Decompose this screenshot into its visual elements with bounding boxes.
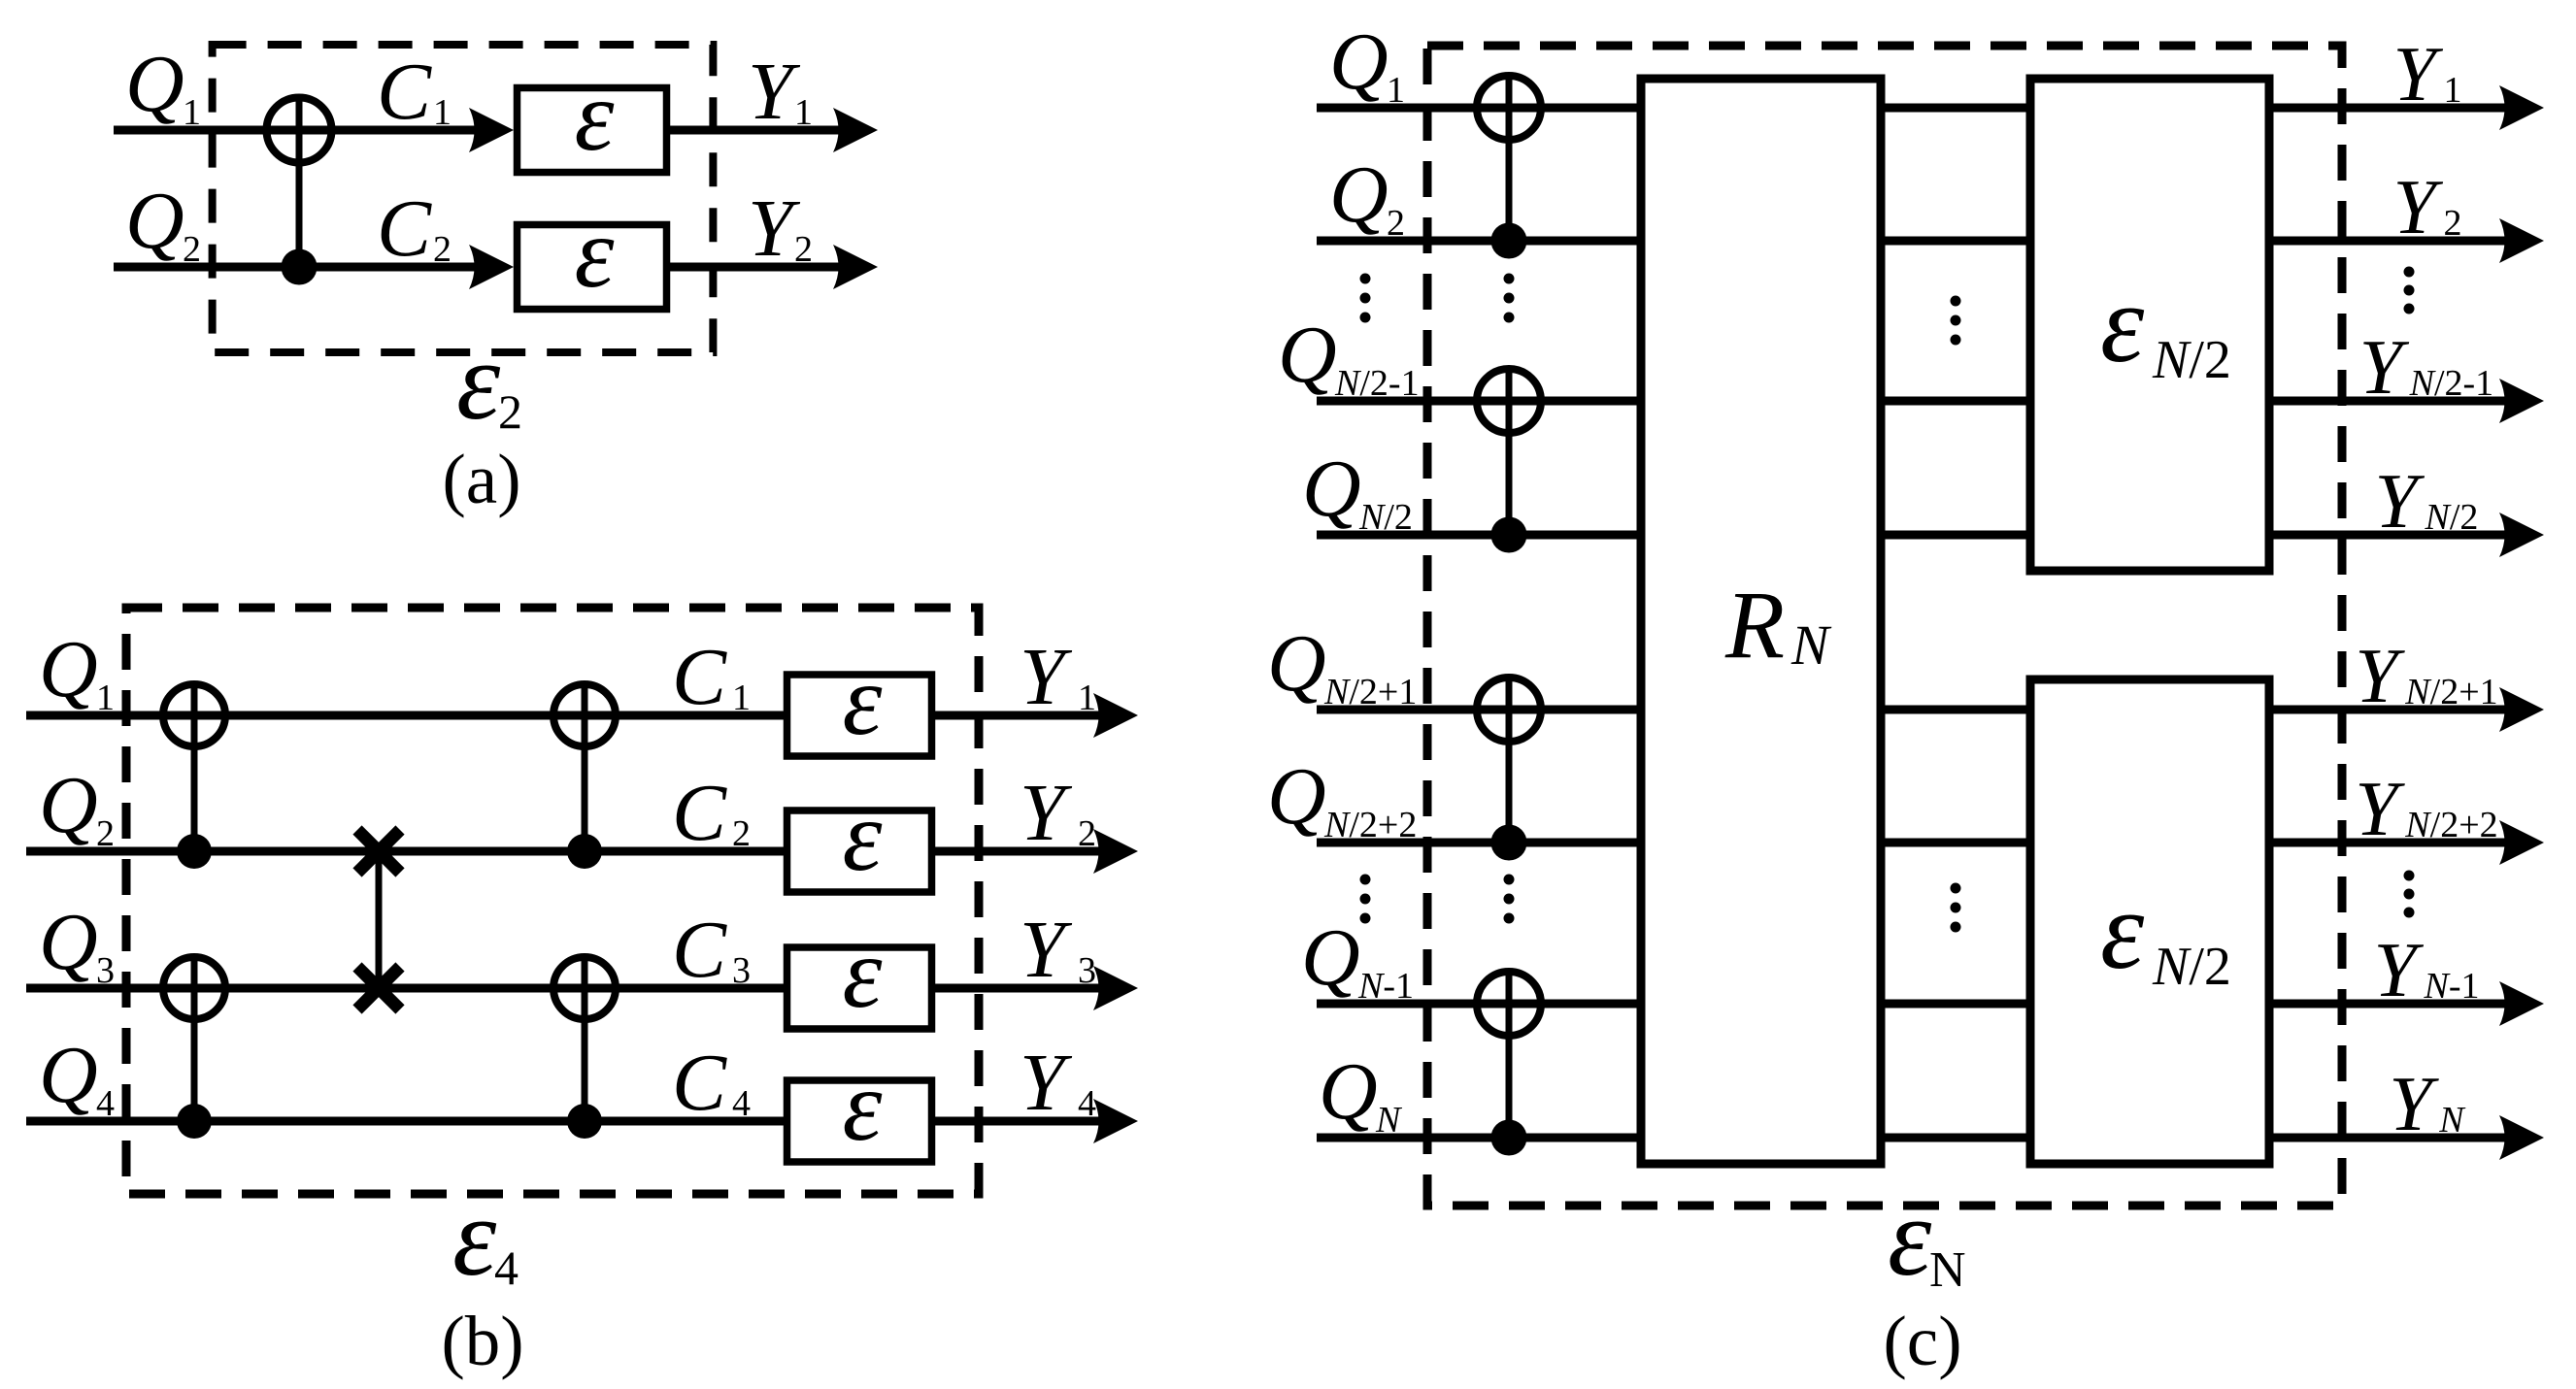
svg-text:Y: Y (2355, 767, 2405, 852)
svg-text:1: 1 (96, 678, 115, 718)
svg-text:N-1: N-1 (1357, 966, 1414, 1007)
svg-text:Y: Y (2389, 1062, 2439, 1147)
svg-text:Y: Y (2393, 32, 2444, 117)
svg-text:R: R (1724, 571, 1785, 678)
svg-text:2: 2 (498, 384, 522, 439)
svg-text:Q: Q (1329, 149, 1388, 240)
svg-text:1: 1 (1078, 678, 1096, 718)
svg-text:Q: Q (125, 176, 184, 266)
svg-text:Q: Q (39, 760, 98, 850)
svg-text:C: C (377, 183, 432, 274)
svg-text:ε: ε (575, 197, 615, 309)
svg-text:(c): (c) (1883, 1302, 1961, 1380)
svg-text:2: 2 (732, 813, 751, 854)
svg-text:2: 2 (96, 813, 115, 854)
svg-text:N/2: N/2 (2425, 497, 2479, 538)
svg-text:N/2: N/2 (2152, 937, 2231, 997)
svg-text:C: C (672, 905, 727, 995)
svg-text:2: 2 (433, 229, 452, 270)
svg-text:ε: ε (843, 917, 883, 1029)
svg-text:N/2: N/2 (1358, 497, 1413, 538)
svg-text:Y: Y (2374, 928, 2425, 1013)
svg-text:(a): (a) (442, 440, 520, 518)
svg-text:4: 4 (1078, 1083, 1096, 1124)
svg-text:N/2+2: N/2+2 (2404, 805, 2497, 845)
svg-text:Q: Q (1319, 1046, 1378, 1137)
svg-text:Y: Y (2393, 165, 2444, 250)
svg-text:2: 2 (1387, 203, 1405, 244)
svg-text:N/2-1: N/2-1 (1334, 363, 1420, 404)
svg-text:1: 1 (794, 92, 813, 133)
svg-text:ε: ε (1888, 1175, 1932, 1299)
svg-text:Q: Q (1301, 912, 1360, 1003)
svg-text:N: N (1929, 1242, 1966, 1298)
svg-text:Q: Q (1267, 751, 1326, 842)
svg-text:3: 3 (732, 950, 751, 991)
svg-text:ε: ε (843, 645, 883, 756)
svg-text:1: 1 (433, 92, 452, 133)
svg-text:ε: ε (452, 1175, 497, 1299)
svg-text:N: N (1790, 613, 1832, 677)
svg-text:1: 1 (732, 678, 751, 718)
svg-text:1: 1 (1387, 70, 1405, 111)
svg-text:ε: ε (2100, 262, 2145, 385)
svg-text:3: 3 (96, 950, 115, 991)
svg-text:ε: ε (843, 780, 883, 892)
svg-text:2: 2 (2444, 203, 2462, 244)
svg-text:4: 4 (732, 1083, 751, 1124)
svg-text:N/2-1: N/2-1 (2409, 363, 2494, 404)
svg-text:C: C (672, 1038, 727, 1128)
svg-text:Y: Y (2355, 634, 2405, 719)
svg-text:C: C (672, 768, 727, 858)
svg-text:(b): (b) (441, 1302, 523, 1380)
svg-text:N: N (2438, 1100, 2466, 1141)
svg-text:4: 4 (96, 1083, 115, 1124)
svg-text:N/2+2: N/2+2 (1323, 805, 1417, 845)
svg-text:Q: Q (1267, 618, 1326, 709)
svg-text:Q: Q (125, 39, 184, 129)
svg-text:2: 2 (183, 229, 201, 270)
svg-text:Q: Q (39, 897, 98, 987)
svg-text:N-1: N-1 (2424, 966, 2480, 1007)
svg-text:ε: ε (575, 60, 615, 172)
svg-text:ε: ε (456, 319, 501, 443)
svg-text:1: 1 (183, 92, 201, 133)
svg-text:N/2+1: N/2+1 (2404, 672, 2497, 712)
svg-text:Q: Q (39, 624, 98, 714)
svg-text:Q: Q (1278, 310, 1337, 400)
svg-text:N/2: N/2 (2152, 330, 2231, 390)
svg-text:Y: Y (2375, 459, 2425, 545)
svg-text:Q: Q (39, 1030, 98, 1120)
svg-text:3: 3 (1078, 950, 1096, 991)
svg-text:Q: Q (1302, 444, 1361, 534)
svg-text:C: C (377, 47, 432, 137)
svg-text:ε: ε (2100, 869, 2145, 992)
svg-text:N: N (1375, 1100, 1403, 1141)
svg-text:N/2+1: N/2+1 (1323, 672, 1417, 712)
svg-text:C: C (672, 632, 727, 722)
svg-text:2: 2 (794, 229, 813, 270)
svg-text:2: 2 (1078, 813, 1096, 854)
svg-text:Q: Q (1329, 17, 1388, 107)
svg-text:4: 4 (494, 1240, 519, 1295)
svg-text:ε: ε (843, 1050, 883, 1162)
svg-text:Y: Y (2359, 325, 2410, 411)
svg-text:1: 1 (2444, 70, 2462, 111)
